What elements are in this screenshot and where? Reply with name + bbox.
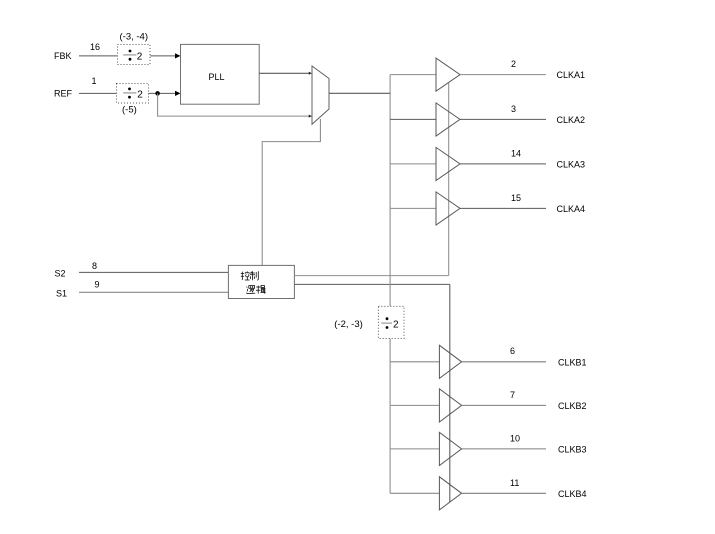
wire CLKA4 output: [460, 207, 546, 209]
buffer CLKA4: [436, 192, 460, 225]
wire PLL output to mux: [259, 72, 308, 74]
svg-text:CLKA1: CLKA1: [557, 70, 586, 80]
wire mux output: [329, 92, 391, 94]
svg-text:(-5): (-5): [122, 105, 137, 116]
wire S1 to control logic: [79, 291, 229, 293]
divider /2 symbol (REF): [123, 88, 143, 101]
control logic block U3: [228, 265, 294, 298]
svg-text:CLKB2: CLKB2: [558, 401, 587, 411]
svg-text:2: 2: [137, 89, 143, 100]
svg-text:CLKA2: CLKA2: [557, 115, 586, 125]
wire REF bypass down: [157, 93, 159, 116]
arrowhead into PLL (FBK): [175, 53, 181, 58]
wire divider to junction and PLL: [149, 92, 176, 94]
svg-text:15: 15: [511, 193, 521, 203]
svg-text:8: 8: [92, 261, 97, 271]
wire FBK input to divider: [79, 55, 118, 57]
buffer CLKB4: [439, 477, 461, 510]
wire enable A vertical up through CLKA buffers: [448, 83, 450, 276]
svg-text:7: 7: [510, 390, 515, 400]
svg-text:CLKB3: CLKB3: [558, 445, 587, 455]
divider /2 block (CLKB) dashed box: [378, 306, 404, 338]
svg-text:CLKB4: CLKB4: [558, 489, 587, 499]
svg-text:(-2, -3): (-2, -3): [334, 319, 363, 330]
wire CLKA1 output: [460, 74, 546, 76]
wire CLKB2 input stub: [390, 404, 439, 406]
svg-text:3: 3: [511, 104, 516, 114]
divider /2 block (REF) dashed box: [117, 84, 149, 104]
wire CLKB4 output: [462, 492, 546, 494]
svg-text:6: 6: [510, 346, 515, 356]
wire CLKB4 input stub: [390, 492, 439, 494]
svg-text:PLL: PLL: [208, 72, 224, 82]
wire CLKA4 input stub: [390, 207, 436, 209]
divider /2 symbol (CLKB): [381, 317, 399, 330]
wire S2 to control logic: [79, 271, 229, 273]
mux U2: [312, 66, 329, 124]
svg-text:2: 2: [511, 59, 516, 69]
svg-text:(-3, -4): (-3, -4): [120, 32, 149, 43]
wire CLKB3 output: [462, 448, 546, 450]
wire REF bypass to mux: [157, 115, 308, 117]
buffer CLKB3: [439, 432, 461, 465]
wire CLKA1 input stub: [390, 74, 436, 76]
divider /2 symbol (FBK): [123, 50, 143, 63]
wire CLKB1 input stub: [390, 361, 439, 363]
svg-text:11: 11: [510, 478, 519, 488]
control logic label line2 (luo ji): [246, 286, 265, 294]
control logic label line1 (kong zhi): [241, 271, 258, 280]
wire CLKA2 input stub: [390, 118, 436, 120]
svg-text:16: 16: [90, 42, 100, 52]
buffer CLKA3: [436, 147, 460, 180]
svg-text:FBK: FBK: [54, 51, 72, 61]
wire enable B vertical down through CLKB buffers: [449, 284, 451, 502]
arrowhead into PLL (REF): [175, 91, 181, 96]
svg-text:14: 14: [511, 149, 521, 159]
svg-text:1: 1: [91, 76, 96, 86]
buffer CLKA2: [436, 103, 460, 136]
svg-text:CLKA4: CLKA4: [557, 204, 586, 214]
svg-text:10: 10: [510, 434, 520, 444]
buffer CLKB2: [439, 389, 461, 422]
buffer CLKB1: [439, 345, 461, 378]
wire CLKB2 output: [462, 404, 546, 406]
svg-text:CLKB1: CLKB1: [558, 358, 587, 368]
wire REF input to divider: [79, 92, 117, 94]
arrowhead into mux (REF bypass): [309, 115, 312, 118]
junction dot REF bypass: [155, 91, 160, 96]
svg-text:CLKA3: CLKA3: [557, 160, 586, 170]
wire mux select vertical: [262, 119, 320, 266]
wire divider to PLL: [150, 55, 175, 57]
wire main distribution vertical lower: [389, 339, 391, 494]
wire CLKA3 input stub: [390, 163, 436, 165]
svg-text:2: 2: [137, 51, 143, 62]
divider /2 block (FBK) dashed box: [118, 45, 151, 65]
wire CLKB3 input stub: [390, 448, 439, 450]
wire main distribution vertical upper: [389, 75, 391, 307]
svg-text:S2: S2: [55, 269, 66, 279]
wire control upper output to enable A: [294, 275, 448, 277]
buffer CLKA1: [436, 58, 460, 91]
svg-text:REF: REF: [54, 89, 73, 99]
svg-text:2: 2: [393, 319, 399, 330]
wire CLKA3 output: [460, 163, 546, 165]
arrowhead into mux (PLL): [309, 72, 312, 75]
PLL block U1: [181, 44, 260, 104]
wire CLKA2 output: [460, 118, 546, 120]
svg-text:S1: S1: [56, 289, 67, 299]
wire CLKB1 output: [462, 361, 546, 363]
svg-text:9: 9: [94, 280, 99, 290]
wire control lower output to enable B: [294, 283, 449, 285]
